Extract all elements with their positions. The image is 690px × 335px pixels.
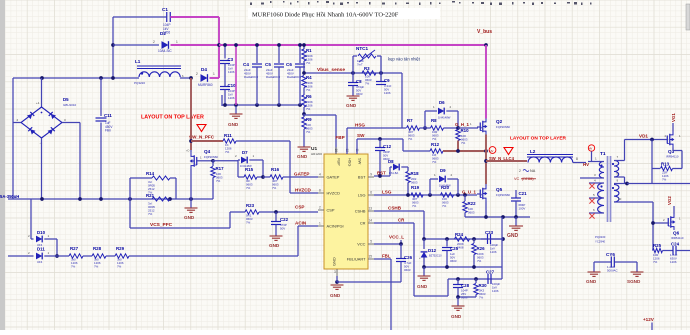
wire HVZCD xyxy=(236,141,318,193)
op-amp U1 controller xyxy=(311,146,374,276)
node V_bus xyxy=(477,29,492,47)
transformer T1 core xyxy=(595,151,611,244)
node CR xyxy=(398,218,405,223)
svg-text:4: 4 xyxy=(319,173,321,177)
wire sense down xyxy=(401,73,403,128)
resistor R20 xyxy=(441,185,454,208)
resistor R19 xyxy=(411,185,423,208)
svg-text:CSP: CSP xyxy=(295,205,304,210)
node ACIN xyxy=(295,221,307,226)
svg-text:R28: R28 xyxy=(93,246,102,251)
svg-text:1: 1 xyxy=(319,222,321,226)
wire Q5 source xyxy=(485,202,487,218)
gnd LLC xyxy=(507,217,523,239)
svg-text:C27: C27 xyxy=(486,270,495,275)
svg-text:HV: HV xyxy=(490,149,494,153)
svg-text:VG2: VG2 xyxy=(667,196,672,205)
resistor R22 xyxy=(463,195,476,217)
svg-text:1206: 1206 xyxy=(490,250,497,254)
resistor R9 xyxy=(302,114,313,147)
wire sec row y182 xyxy=(627,183,690,185)
resistor R15 xyxy=(238,160,263,190)
svg-text:GATEP: GATEP xyxy=(327,175,340,180)
note layout1 xyxy=(141,115,206,132)
svg-text:ES1-BA: ES1-BA xyxy=(389,171,398,175)
node HV circle2 xyxy=(583,145,595,167)
bridge rectifier D5 xyxy=(17,97,77,145)
svg-text:D11: D11 xyxy=(37,247,45,252)
wire VCS_PFC xyxy=(130,199,230,228)
wire C1 left loop xyxy=(111,17,163,78)
wire FBL xyxy=(374,259,391,330)
svg-text:1N4148W: 1N4148W xyxy=(439,184,451,188)
svg-text:GATEP: GATEP xyxy=(294,172,309,177)
svg-text:0603: 0603 xyxy=(411,181,418,185)
wire CR xyxy=(374,223,448,296)
svg-text:7%: 7% xyxy=(653,260,658,264)
svg-text:R25: R25 xyxy=(653,243,662,248)
svg-text:HV: HV xyxy=(589,147,593,151)
svg-text:7%: 7% xyxy=(246,186,251,190)
svg-text:7%: 7% xyxy=(71,265,76,269)
resistor R16 xyxy=(263,167,318,190)
svg-text:SGND: SGND xyxy=(627,279,641,284)
svg-text:C12: C12 xyxy=(383,144,392,149)
diode D8 xyxy=(388,159,408,176)
svg-text:R19: R19 xyxy=(411,185,420,190)
wire C11 column xyxy=(100,78,102,116)
wire gnd bus y199 xyxy=(8,197,213,201)
wire x502 xyxy=(501,217,503,279)
svg-text:C28: C28 xyxy=(461,283,470,288)
svg-text:+1: +1 xyxy=(36,101,40,105)
resistor R26 xyxy=(472,239,485,267)
svg-text:0603: 0603 xyxy=(404,268,411,272)
svg-text:1: 1 xyxy=(213,72,215,76)
transistor Q5 xyxy=(477,185,510,201)
svg-text:FBL/UART: FBL/UART xyxy=(347,257,366,262)
capacitor C9 xyxy=(376,73,392,95)
gnd C22 xyxy=(269,236,283,248)
svg-text:VCC: VCC xyxy=(357,242,365,247)
resistor R7 xyxy=(407,118,420,141)
svg-text:R14: R14 xyxy=(146,171,155,176)
svg-text:RadialDC8: RadialDC8 xyxy=(244,75,258,79)
svg-text:15: 15 xyxy=(368,255,372,259)
capacitor CY6 xyxy=(594,252,637,273)
resistor R27 xyxy=(69,246,92,269)
svg-text:C1: C1 xyxy=(162,7,168,12)
svg-text:kẹp vào tản nhiệt: kẹp vào tản nhiệt xyxy=(388,57,421,62)
svg-text:CSHB: CSHB xyxy=(355,209,366,214)
svg-text:HSG: HSG xyxy=(355,123,365,128)
svg-text:FQP20N60: FQP20N60 xyxy=(496,193,510,197)
svg-text:3: 3 xyxy=(334,270,336,274)
svg-text:R18: R18 xyxy=(411,171,420,176)
svg-text:+: + xyxy=(419,256,421,260)
svg-text:MURF1060 Diode Phục Hồi Nhanh: MURF1060 Diode Phục Hồi Nhanh 10A-600V T… xyxy=(252,12,399,19)
wire AC input left xyxy=(12,78,14,199)
svg-text:HV: HV xyxy=(583,162,589,167)
svg-text:MURF860: MURF860 xyxy=(198,83,213,87)
node G_H_1 xyxy=(455,122,481,130)
wire bridge left xyxy=(13,122,21,124)
inductor L3 label xyxy=(0,194,19,199)
gnd D12 xyxy=(417,267,431,289)
svg-text:R29: R29 xyxy=(116,246,125,251)
part NA note xyxy=(514,169,536,181)
svg-text:HVZCD: HVZCD xyxy=(295,188,312,193)
svg-text:7%: 7% xyxy=(432,137,437,141)
wire rail return xyxy=(221,95,223,106)
wire Q3 gate net xyxy=(651,140,653,184)
svg-text:7%: 7% xyxy=(306,61,311,65)
svg-text:Q6: Q6 xyxy=(673,231,680,236)
resistor R8 xyxy=(431,118,459,141)
capacitor C25 xyxy=(442,239,459,267)
node Vbus_sense xyxy=(302,67,402,75)
svg-text:L1: L1 xyxy=(135,59,141,64)
svg-text:C3: C3 xyxy=(228,57,234,62)
svg-text:PQ3220: PQ3220 xyxy=(134,81,145,85)
svg-text:7%: 7% xyxy=(306,88,311,92)
wire V_bus bus xyxy=(219,44,486,46)
resistor R14 xyxy=(130,171,176,199)
svg-text:1206: 1206 xyxy=(670,260,677,264)
wire D2 out magenta xyxy=(171,44,220,46)
svg-text:D6: D6 xyxy=(439,100,445,105)
svg-text:1206: 1206 xyxy=(492,289,499,293)
inductor L1 xyxy=(134,59,191,85)
capacitor C11 xyxy=(96,113,114,199)
transistor Q4 xyxy=(186,149,218,170)
svg-text:R22: R22 xyxy=(468,201,477,206)
diode D2 xyxy=(153,31,178,53)
svg-text:50V: 50V xyxy=(280,227,285,231)
svg-text:Film: Film xyxy=(105,129,111,133)
svg-text:GND: GND xyxy=(417,284,428,289)
wire VCC xyxy=(374,242,403,246)
svg-text:VD1: VD1 xyxy=(639,134,648,139)
svg-text:GND: GND xyxy=(586,279,597,284)
svg-text:CR: CR xyxy=(398,218,405,223)
node VG1 xyxy=(671,113,676,132)
svg-text:SW: SW xyxy=(357,133,365,138)
resistor R24 xyxy=(455,232,470,250)
svg-text:C11: C11 xyxy=(104,113,112,118)
svg-text:FQP20N60: FQP20N60 xyxy=(496,125,510,129)
svg-text:CSHB: CSHB xyxy=(388,206,402,211)
svg-text:VCC_L: VCC_L xyxy=(389,235,404,240)
capacitor C8 xyxy=(348,73,364,96)
capacitor C23 xyxy=(481,230,503,254)
svg-text:LAYOUT ON TOP LAYER: LAYOUT ON TOP LAYER xyxy=(141,115,204,121)
diode D11 xyxy=(28,247,50,265)
svg-text:NA: NA xyxy=(530,169,536,173)
svg-text:BST: BST xyxy=(358,175,366,180)
svg-text:100V: 100V xyxy=(519,207,526,211)
diode D10 xyxy=(28,230,50,247)
gnd shunt xyxy=(184,199,198,220)
svg-text:UF4: UF4 xyxy=(37,260,43,264)
wire SW to R12 xyxy=(403,139,430,151)
svg-text:2: 2 xyxy=(153,40,155,44)
svg-text:C9: C9 xyxy=(384,78,390,83)
svg-text:10A4-SiC: 10A4-SiC xyxy=(158,49,172,53)
svg-text:2: 2 xyxy=(519,169,521,173)
svg-text:G_H_1: G_H_1 xyxy=(455,122,469,127)
svg-text:HVZCD: HVZCD xyxy=(327,191,341,196)
note layout2 xyxy=(504,136,567,155)
gnd C28 xyxy=(451,297,465,319)
wire SW xyxy=(357,133,403,154)
wire D10 out xyxy=(44,239,57,256)
svg-text:C22: C22 xyxy=(280,217,289,222)
svg-text:LSG: LSG xyxy=(358,193,366,198)
svg-text:SW: SW xyxy=(358,158,363,165)
resistor R1 xyxy=(302,43,313,73)
svg-text:Q5: Q5 xyxy=(496,187,503,192)
note kep vao tan nhiet xyxy=(388,57,421,62)
wire SW_N_PFC maroon xyxy=(189,78,193,150)
svg-text:7%: 7% xyxy=(365,82,370,86)
wire C1 right magenta xyxy=(170,16,219,18)
svg-text:R23: R23 xyxy=(246,203,255,208)
svg-text:C21: C21 xyxy=(519,191,528,196)
capacitor C24 xyxy=(670,242,690,265)
wire to R27 xyxy=(44,255,69,257)
svg-text:7%: 7% xyxy=(246,221,251,225)
svg-text:V_bus: V_bus xyxy=(477,29,492,35)
svg-text:500VAC: 500VAC xyxy=(607,269,618,273)
capacitor C5 xyxy=(265,43,284,105)
svg-text:R12: R12 xyxy=(431,142,440,147)
node +12V xyxy=(643,317,655,330)
wire CSHB xyxy=(374,211,424,239)
capacitor C28 xyxy=(453,279,470,300)
svg-text:7%: 7% xyxy=(442,204,447,208)
node GATEP xyxy=(294,172,309,177)
svg-text:+12V: +12V xyxy=(643,317,655,322)
svg-text:HSG: HSG xyxy=(348,158,353,166)
svg-text:8: 8 xyxy=(576,157,578,161)
svg-text:D9: D9 xyxy=(440,168,446,173)
wire Q5 drain xyxy=(485,184,487,186)
node CSHB xyxy=(388,206,402,211)
capacitor C1 xyxy=(162,7,170,35)
svg-text:IRFB4110: IRFB4110 xyxy=(671,236,684,240)
resistor R10 xyxy=(456,128,469,145)
svg-text:10: 10 xyxy=(618,197,622,201)
node SW_N_PFC xyxy=(189,135,215,140)
svg-text:D5: D5 xyxy=(63,97,69,102)
svg-text:7%: 7% xyxy=(272,186,277,190)
svg-text:RadialDC8: RadialDC8 xyxy=(287,75,301,79)
svg-text:7%: 7% xyxy=(306,130,311,134)
svg-text:6: 6 xyxy=(370,191,372,195)
wire vbus riser x219 xyxy=(217,17,221,78)
svg-text:R11: R11 xyxy=(224,133,232,138)
wire R11 in maroon xyxy=(191,140,223,142)
wire HSG xyxy=(347,123,406,155)
svg-text:1206: 1206 xyxy=(228,96,235,100)
svg-text:HR1200: HR1200 xyxy=(311,152,322,156)
svg-text:7%: 7% xyxy=(461,141,466,145)
svg-text:FQP20N60: FQP20N60 xyxy=(204,155,218,159)
svg-text:R10: R10 xyxy=(461,128,470,133)
node G_U_1 xyxy=(462,190,476,195)
svg-text:BST: BST xyxy=(377,171,386,176)
wire row y279 xyxy=(448,277,502,281)
wire Q2 source maroon xyxy=(485,135,487,152)
svg-text:ACIN: ACIN xyxy=(295,221,307,226)
svg-text:R30: R30 xyxy=(479,283,488,288)
diode D6 bypass xyxy=(425,100,458,128)
wire sec2 to gate xyxy=(628,202,655,251)
node FBL xyxy=(382,254,391,259)
resistor R12 xyxy=(430,142,443,164)
svg-text:0603: 0603 xyxy=(468,211,475,215)
wire LLC row maroon xyxy=(486,160,527,162)
wire R10 to SW_N xyxy=(457,141,459,152)
wire row y239 xyxy=(422,237,505,241)
panel edge right scrollbar xyxy=(686,4,690,30)
svg-text:Q2: Q2 xyxy=(496,119,503,124)
wire BST xyxy=(374,171,390,178)
svg-text:R3: R3 xyxy=(364,66,370,71)
svg-text:CR: CR xyxy=(360,221,366,226)
svg-text:C4: C4 xyxy=(243,62,249,67)
svg-text:8: 8 xyxy=(319,189,321,193)
svg-text:C6: C6 xyxy=(286,62,292,67)
svg-text:D4: D4 xyxy=(201,67,207,72)
wire D10 branch xyxy=(31,199,34,239)
svg-text:GND: GND xyxy=(507,233,519,239)
svg-text:7%: 7% xyxy=(225,150,230,154)
wire Q3 source xyxy=(673,148,682,169)
svg-text:C26: C26 xyxy=(404,255,413,260)
node FBP xyxy=(336,135,345,140)
wire cap rail y105 xyxy=(222,103,302,107)
panel edge left xyxy=(0,0,5,330)
wire IC gnd xyxy=(330,276,401,298)
svg-text:1206: 1206 xyxy=(384,91,391,95)
wire FBP tap xyxy=(302,112,336,154)
wire bus drop magenta x236 xyxy=(234,43,238,105)
svg-text:7mT: 7mT xyxy=(357,63,363,67)
svg-text:C25: C25 xyxy=(450,246,459,251)
svg-text:PQ3230: PQ3230 xyxy=(595,235,606,239)
thermistor NTC1 xyxy=(353,46,381,73)
svg-text:C24: C24 xyxy=(671,242,680,247)
resistor R25 xyxy=(653,243,673,264)
gnd R9 xyxy=(297,147,311,159)
wire Q4 gate xyxy=(197,159,238,163)
node HV circle1 xyxy=(489,147,496,154)
svg-text:Q4: Q4 xyxy=(204,149,211,154)
svg-text:IRFB4110: IRFB4110 xyxy=(666,155,679,159)
wire R12 out maroon xyxy=(443,149,488,153)
svg-text:2: 2 xyxy=(319,206,321,210)
wire row y217 xyxy=(465,215,530,219)
svg-text:GND: GND xyxy=(332,257,337,266)
svg-text:R17: R17 xyxy=(216,166,225,171)
capacitor C4 xyxy=(243,43,262,105)
wire bridge plus riser xyxy=(41,78,43,107)
svg-text:ACIN/PGI: ACIN/PGI xyxy=(327,224,344,229)
capacitor C10 xyxy=(220,83,236,105)
transformer T1 secondary winding2 xyxy=(612,185,628,203)
wire SW_N_LLC maroon xyxy=(484,151,488,184)
junction D11/D10 xyxy=(55,254,59,258)
svg-text:7%: 7% xyxy=(662,178,667,182)
svg-text:R8: R8 xyxy=(431,118,437,123)
svg-text:CSP: CSP xyxy=(327,208,335,213)
svg-text:1: 1 xyxy=(176,40,178,44)
wire VCS up to R23 xyxy=(229,212,231,228)
resistor R28 xyxy=(92,246,115,269)
wire row y297 xyxy=(456,295,476,299)
transistor Q2 xyxy=(470,118,510,134)
resistor R18 xyxy=(406,167,419,195)
junction GATEP xyxy=(261,175,265,179)
wire VD1 row xyxy=(625,134,667,142)
node CSP xyxy=(295,205,304,210)
gnd cap bank xyxy=(228,106,243,127)
wire Q4 source xyxy=(190,169,192,199)
svg-text:SW_N_PFC: SW_N_PFC xyxy=(189,135,215,140)
wire LSG xyxy=(374,190,477,197)
svg-text:1N4148W: 1N4148W xyxy=(438,116,451,120)
svg-text:0603: 0603 xyxy=(450,259,457,263)
svg-text:R1: R1 xyxy=(306,48,312,53)
node VG2 xyxy=(667,196,674,214)
title text xyxy=(248,8,440,19)
svg-text:7%: 7% xyxy=(117,265,122,269)
junction CSP/C22 xyxy=(274,210,278,214)
svg-text:FBL: FBL xyxy=(382,254,391,259)
transistor Q3 xyxy=(666,131,681,158)
svg-text:5: 5 xyxy=(370,240,372,244)
wire ACIN long xyxy=(129,226,318,256)
svg-text:7%: 7% xyxy=(306,107,311,111)
wire row y267 xyxy=(422,265,502,269)
resistor R4 xyxy=(302,75,313,95)
svg-text:RadialDC8: RadialDC8 xyxy=(266,75,280,79)
svg-text:VG1: VG1 xyxy=(671,113,676,122)
svg-text:C8: C8 xyxy=(356,79,362,84)
gnd C8 xyxy=(346,96,360,108)
svg-text:BZT52C10: BZT52C10 xyxy=(429,254,442,258)
svg-text:NTC1: NTC1 xyxy=(356,46,368,51)
svg-text:7%: 7% xyxy=(148,212,153,216)
diode D12 zener xyxy=(419,239,442,267)
svg-text:R6: R6 xyxy=(306,94,312,99)
wire bridge to L1 row xyxy=(13,76,139,80)
svg-text:FBP: FBP xyxy=(336,135,345,140)
svg-text:2: 2 xyxy=(196,72,198,76)
svg-text:GND: GND xyxy=(228,122,239,127)
svg-text:GND: GND xyxy=(184,215,195,220)
capacitor C26 xyxy=(396,244,413,282)
capacitor C22 xyxy=(271,212,289,236)
capacitor C6 xyxy=(286,43,305,105)
svg-text:LSG: LSG xyxy=(382,190,392,195)
inductor L2 xyxy=(527,149,586,163)
capacitor C27 xyxy=(486,270,500,294)
svg-text:7%: 7% xyxy=(216,179,221,183)
capacitor C12 xyxy=(375,139,392,176)
